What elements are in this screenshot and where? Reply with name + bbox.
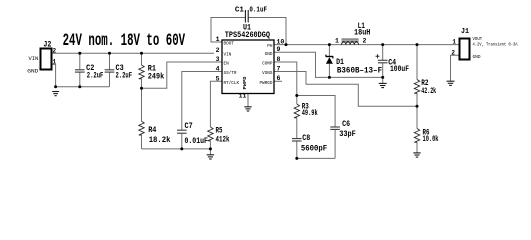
svg-text:C7: C7 bbox=[185, 122, 193, 131]
svg-text:VOUT: VOUT bbox=[473, 36, 483, 42]
svg-text:2: 2 bbox=[53, 48, 57, 55]
svg-text:3: 3 bbox=[216, 56, 220, 63]
svg-text:VIN: VIN bbox=[224, 52, 232, 58]
svg-text:0.01uF: 0.01uF bbox=[185, 137, 209, 146]
svg-text:PWRGD: PWRGD bbox=[260, 80, 273, 86]
svg-text:49.9k: 49.9k bbox=[302, 109, 318, 118]
svg-text:C8: C8 bbox=[302, 134, 310, 143]
svg-text:B360B–13–F: B360B–13–F bbox=[337, 67, 382, 76]
svg-text:5600pF: 5600pF bbox=[301, 144, 327, 153]
svg-text:42.2k: 42.2k bbox=[421, 87, 436, 96]
svg-text:18uH: 18uH bbox=[354, 29, 371, 38]
svg-text:24V nom. 18V to 60V: 24V nom. 18V to 60V bbox=[63, 31, 186, 51]
svg-text:GND: GND bbox=[265, 51, 273, 57]
svg-text:J2: J2 bbox=[43, 41, 51, 50]
svg-text:5: 5 bbox=[216, 76, 220, 83]
svg-text:2.2uF: 2.2uF bbox=[87, 72, 104, 81]
svg-text:18.2k: 18.2k bbox=[149, 136, 171, 145]
svg-text:0.1uF: 0.1uF bbox=[249, 7, 267, 15]
svg-text:GND: GND bbox=[473, 54, 481, 60]
svg-text:10: 10 bbox=[277, 38, 285, 45]
svg-text:2.2uF: 2.2uF bbox=[116, 72, 133, 81]
svg-text:4.2V, Transient 0-3A: 4.2V, Transient 0-3A bbox=[473, 41, 518, 47]
svg-text:33pF: 33pF bbox=[339, 130, 356, 139]
svg-text:6: 6 bbox=[277, 75, 281, 82]
svg-text:RT/CLK: RT/CLK bbox=[224, 80, 240, 86]
svg-text:2: 2 bbox=[363, 38, 367, 45]
svg-text:TPS54260DGQ: TPS54260DGQ bbox=[225, 31, 270, 40]
svg-text:BOOT: BOOT bbox=[224, 41, 235, 47]
svg-text:SS/TR: SS/TR bbox=[224, 70, 237, 76]
svg-text:412k: 412k bbox=[216, 136, 230, 145]
svg-text:9: 9 bbox=[277, 46, 281, 53]
svg-text:EN: EN bbox=[224, 61, 229, 67]
svg-text:1: 1 bbox=[335, 38, 339, 45]
svg-text:1: 1 bbox=[452, 39, 456, 46]
svg-text:GND: GND bbox=[27, 68, 39, 75]
svg-text:PH: PH bbox=[267, 43, 272, 49]
svg-text:2: 2 bbox=[216, 47, 220, 54]
svg-text:100uF: 100uF bbox=[390, 65, 409, 74]
svg-text:7: 7 bbox=[277, 65, 281, 72]
svg-text:10.0k: 10.0k bbox=[423, 135, 439, 144]
svg-text:PWPD: PWPD bbox=[244, 76, 248, 90]
svg-text:1: 1 bbox=[53, 59, 57, 66]
svg-text:C6: C6 bbox=[342, 120, 350, 129]
svg-text:J1: J1 bbox=[461, 28, 469, 36]
svg-text:11: 11 bbox=[239, 93, 247, 100]
svg-text:COMP: COMP bbox=[262, 61, 273, 67]
svg-text:VIN: VIN bbox=[29, 55, 39, 62]
svg-text:8: 8 bbox=[277, 56, 281, 63]
svg-text:2: 2 bbox=[451, 49, 455, 56]
svg-text:249k: 249k bbox=[148, 73, 165, 82]
svg-text:R5: R5 bbox=[216, 127, 223, 136]
svg-text:VSNS: VSNS bbox=[262, 70, 273, 76]
svg-text:R4: R4 bbox=[148, 126, 156, 135]
svg-text:D1: D1 bbox=[336, 58, 344, 67]
svg-text:1: 1 bbox=[216, 36, 220, 43]
svg-text:C1: C1 bbox=[235, 7, 244, 15]
svg-text:4: 4 bbox=[216, 66, 220, 73]
